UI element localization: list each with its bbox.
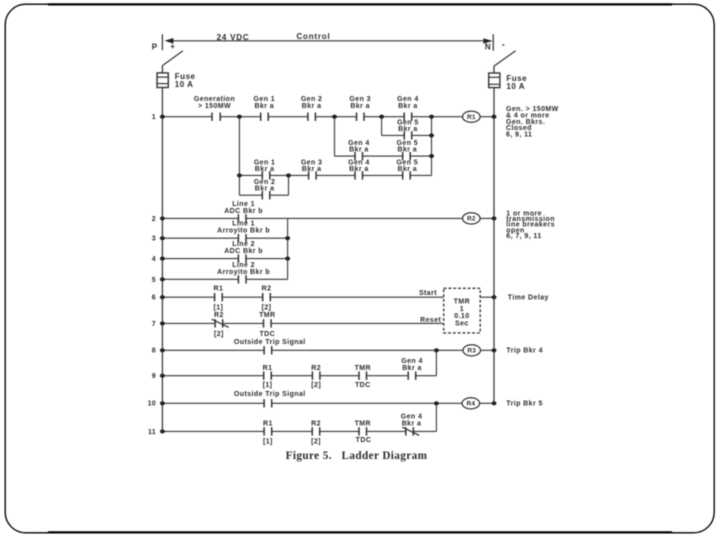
svg-text:Sec: Sec (455, 320, 469, 327)
svg-text:Bkr a: Bkr a (397, 166, 417, 173)
svg-text:R1: R1 (214, 286, 224, 293)
svg-text:TMR: TMR (355, 365, 371, 372)
svg-text:N: N (485, 43, 491, 52)
svg-text:R1: R1 (467, 114, 476, 121)
svg-text:10: 10 (148, 401, 156, 408)
svg-text:R2: R2 (214, 312, 224, 319)
svg-text:ADC Bkr b: ADC Bkr b (224, 248, 263, 255)
svg-text:TDC: TDC (259, 331, 275, 338)
svg-text:Control: Control (296, 32, 330, 41)
svg-text:R2: R2 (311, 365, 321, 372)
svg-text:TMR: TMR (259, 312, 275, 319)
svg-text:-: - (502, 40, 505, 50)
svg-text:Bkr a: Bkr a (350, 103, 370, 110)
svg-text:[2]: [2] (214, 331, 224, 338)
svg-text:Arroyito Bkr b: Arroyito Bkr b (217, 228, 270, 235)
svg-text:R1: R1 (263, 365, 273, 372)
svg-text:10 A: 10 A (506, 82, 525, 91)
svg-text:Line 1: Line 1 (232, 201, 255, 208)
svg-text:Time Delay: Time Delay (508, 295, 549, 302)
svg-text:Bkr a: Bkr a (402, 365, 422, 372)
svg-text:R1: R1 (263, 420, 273, 427)
svg-text:Gen 2: Gen 2 (301, 96, 323, 103)
svg-text:Bkr a: Bkr a (302, 103, 322, 110)
svg-text:Bkr a: Bkr a (398, 126, 418, 133)
svg-text:+: + (170, 42, 175, 51)
svg-text:R2: R2 (467, 216, 476, 223)
svg-text:R2: R2 (262, 286, 272, 293)
svg-text:9: 9 (152, 373, 156, 380)
svg-text:TDC: TDC (355, 382, 371, 389)
svg-text:Bkr a: Bkr a (255, 166, 275, 173)
svg-text:Bkr a: Bkr a (349, 147, 369, 154)
svg-text:0.10: 0.10 (454, 313, 469, 320)
svg-text:Bkr a: Bkr a (302, 166, 322, 173)
svg-text:Trip Bkr 4: Trip Bkr 4 (506, 348, 543, 355)
svg-text:4: 4 (152, 256, 156, 263)
svg-text:ADC Bkr b: ADC Bkr b (224, 208, 263, 215)
svg-text:7: 7 (152, 321, 156, 328)
svg-text:TMR: TMR (355, 420, 371, 427)
svg-text:Generation: Generation (194, 96, 235, 103)
svg-text:Trip Bkr 5: Trip Bkr 5 (506, 400, 543, 407)
svg-text:> 150MW: > 150MW (198, 103, 231, 110)
svg-text:10 A: 10 A (175, 80, 194, 89)
svg-text:[1]: [1] (213, 305, 223, 312)
svg-text:R4: R4 (466, 401, 475, 408)
svg-text:[2]: [2] (311, 438, 321, 445)
svg-text:Bkr a: Bkr a (402, 421, 422, 428)
svg-text:24 VDC: 24 VDC (217, 33, 250, 42)
svg-text:TDC: TDC (356, 437, 372, 444)
svg-text:1: 1 (152, 114, 156, 121)
svg-text:[2]: [2] (311, 382, 321, 389)
svg-text:6: 6 (152, 295, 156, 302)
svg-text:Figure 5. Ladder Diagram: Figure 5. Ladder Diagram (286, 450, 428, 462)
svg-text:Gen 3: Gen 3 (349, 96, 371, 103)
svg-text:[2]: [2] (262, 305, 272, 312)
svg-text:6, 9, 11: 6, 9, 11 (506, 131, 532, 138)
svg-text:Line 1: Line 1 (232, 221, 255, 228)
svg-text:Line 2: Line 2 (232, 241, 255, 248)
svg-text:Bkr a: Bkr a (397, 147, 417, 154)
svg-text:TMR: TMR (454, 299, 470, 306)
svg-text:P: P (152, 42, 158, 51)
svg-text:Bkr a: Bkr a (398, 103, 418, 110)
svg-text:1: 1 (460, 306, 464, 313)
svg-text:Bkr a: Bkr a (255, 186, 275, 193)
svg-text:Gen 1: Gen 1 (254, 96, 276, 103)
svg-text:Start: Start (419, 290, 437, 297)
svg-text:8: 8 (152, 348, 156, 355)
svg-text:Outside Trip Signal: Outside Trip Signal (234, 339, 306, 346)
svg-text:Arroyito Bkr b: Arroyito Bkr b (217, 269, 270, 276)
svg-text:Line 2: Line 2 (232, 262, 255, 269)
svg-text:6, 7, 9, 11: 6, 7, 9, 11 (506, 233, 541, 240)
svg-text:2: 2 (152, 216, 156, 223)
svg-text:Reset: Reset (420, 317, 441, 324)
svg-text:Outside Trip Signal: Outside Trip Signal (234, 391, 306, 398)
svg-text:Bkr a: Bkr a (254, 103, 274, 110)
svg-text:5: 5 (152, 277, 156, 284)
svg-text:11: 11 (148, 429, 156, 436)
svg-text:Gen 4: Gen 4 (397, 96, 419, 103)
svg-text:[1]: [1] (263, 382, 273, 389)
svg-text:3: 3 (152, 236, 156, 243)
svg-text:Bkr a: Bkr a (349, 166, 369, 173)
svg-text:[1]: [1] (263, 438, 273, 445)
svg-text:R3: R3 (467, 348, 476, 355)
svg-text:R2: R2 (311, 420, 321, 427)
